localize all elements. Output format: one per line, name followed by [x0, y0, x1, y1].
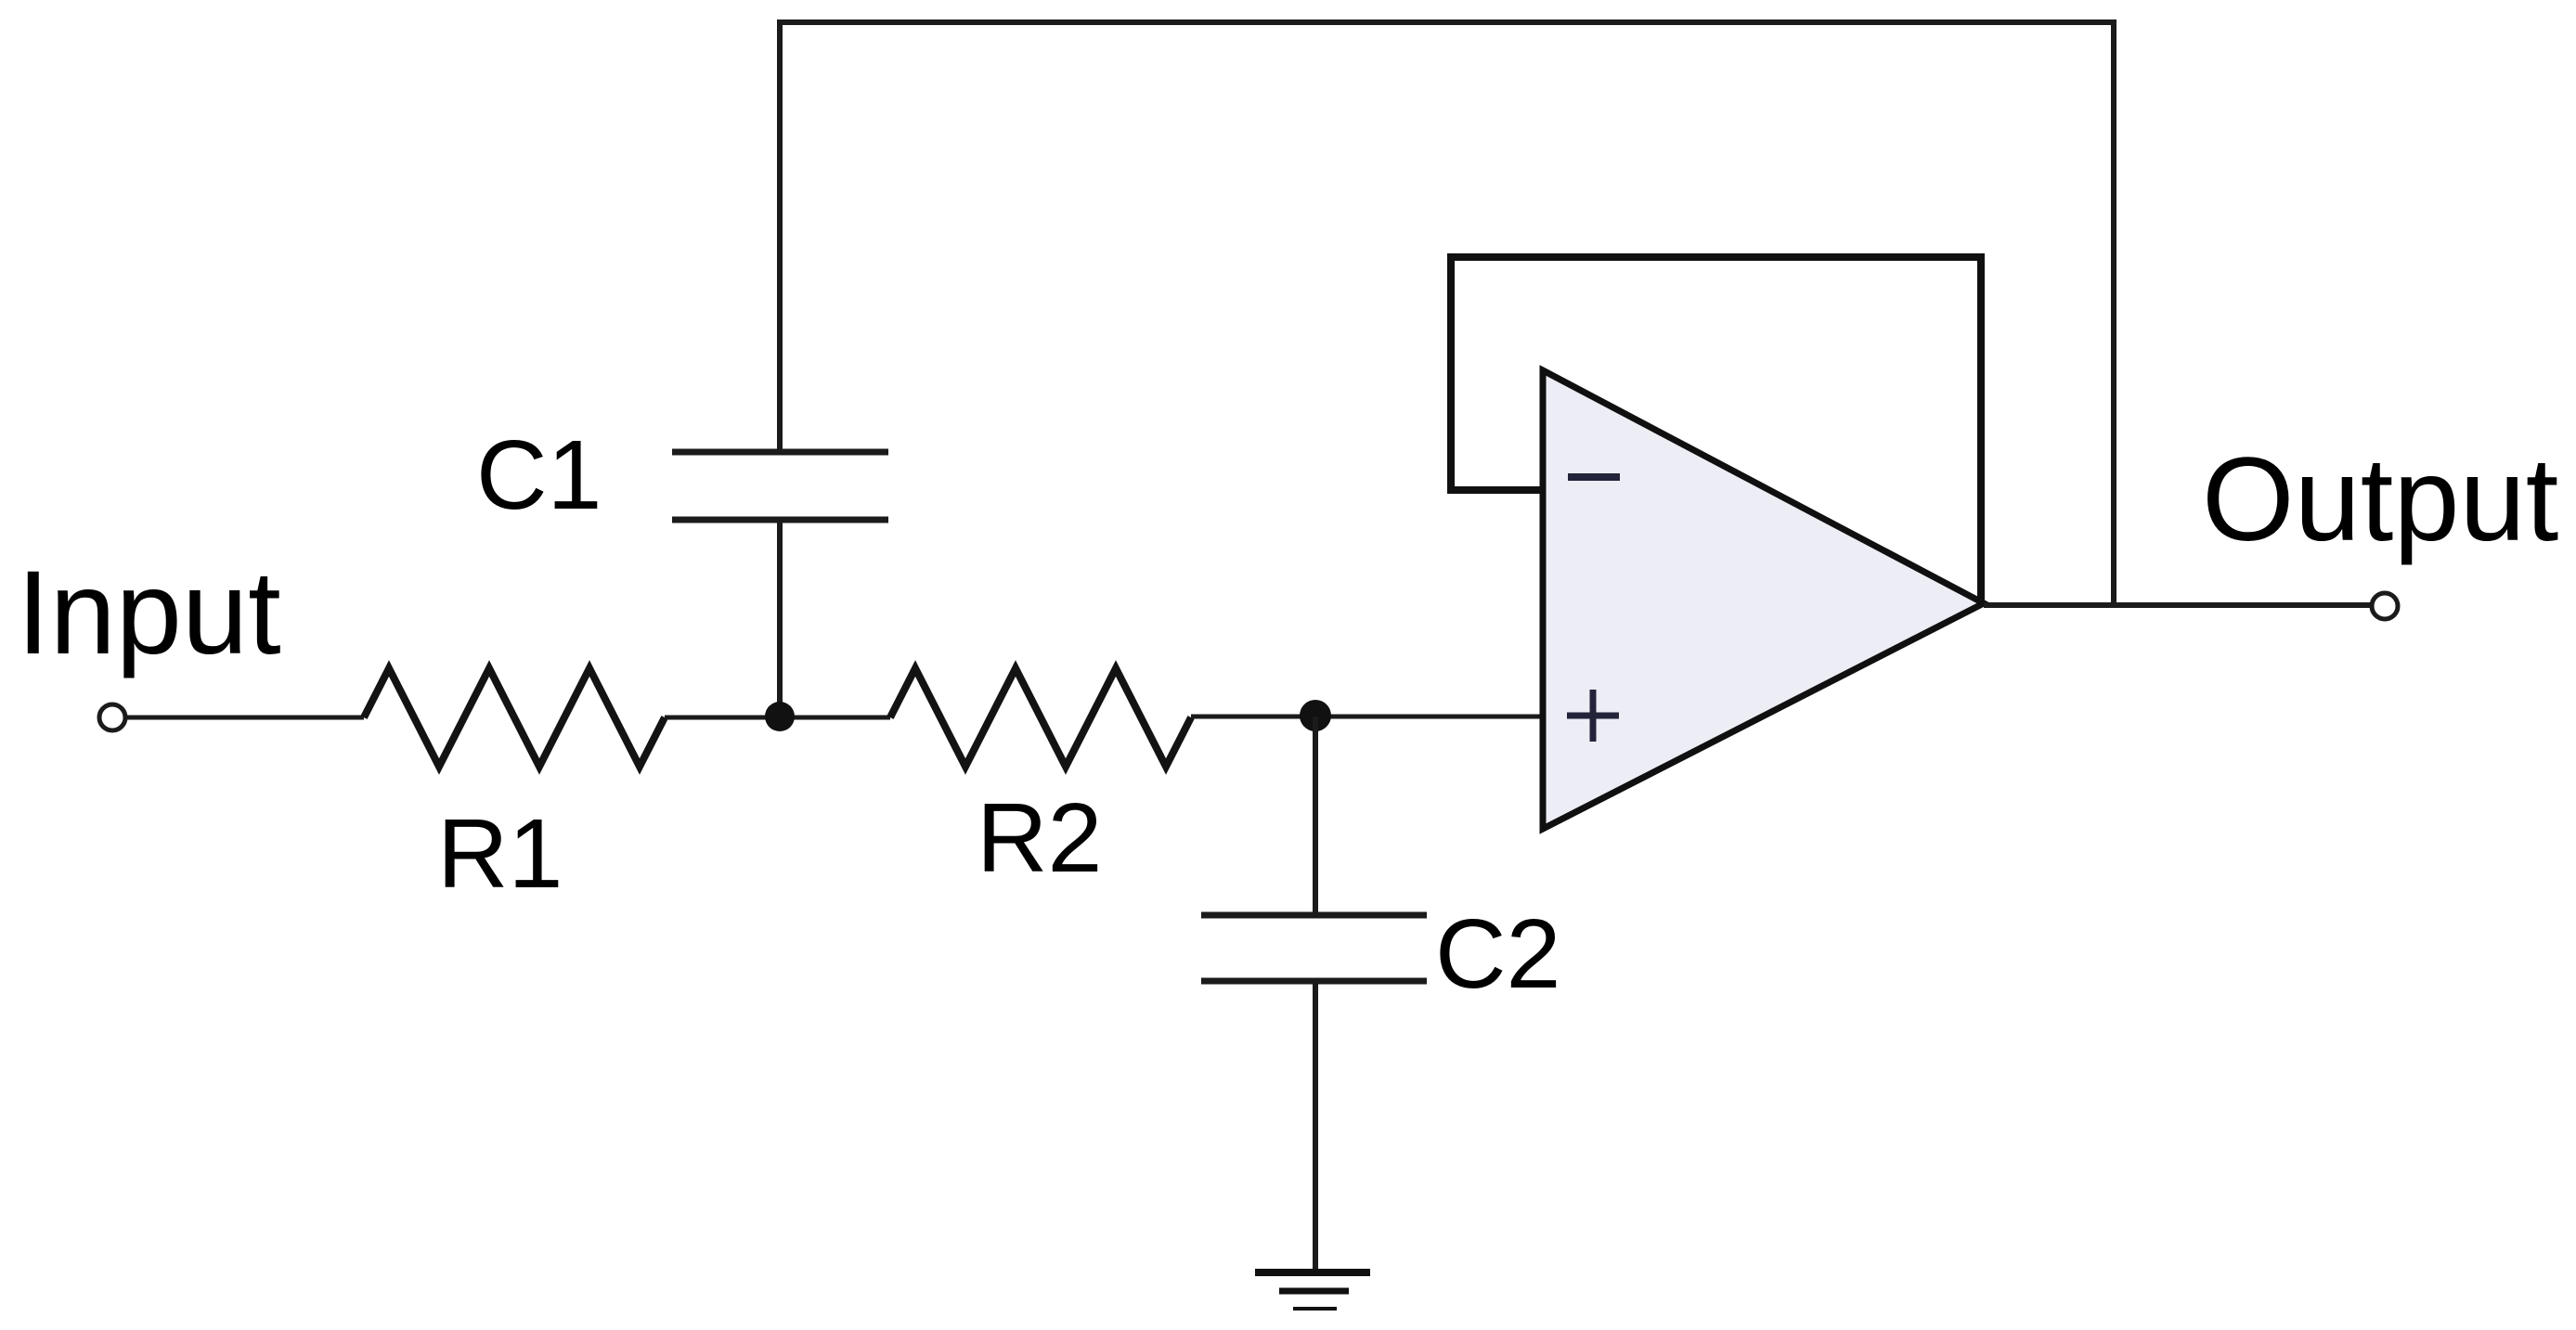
- svg-text:C2: C2: [1435, 899, 1561, 1009]
- node A junction dot: [765, 702, 795, 731]
- wire: C2 to ground: [1313, 981, 1318, 1272]
- wire: top feedback from C1 top to output column: [780, 22, 2114, 605]
- svg-text:Input: Input: [17, 547, 281, 679]
- capacitor C1: [672, 452, 888, 520]
- wire: R2 to op-amp + input through node B: [1191, 715, 1543, 719]
- resistor R1: [364, 668, 665, 767]
- wire: node B down to C2: [1313, 717, 1318, 915]
- input terminal: [99, 704, 125, 730]
- wire: R1 to R2 through node A: [665, 716, 890, 720]
- output terminal: [2372, 593, 2398, 619]
- op-amp U1: [1543, 370, 1984, 829]
- svg-text:C1: C1: [476, 420, 602, 530]
- capacitor C2: [1201, 915, 1427, 981]
- svg-text:R1: R1: [437, 799, 563, 909]
- resistor R2: [890, 668, 1191, 767]
- svg-text:Output: Output: [2202, 433, 2558, 566]
- wire: feedback loop around op-amp: [1451, 257, 1981, 604]
- op-amp inverting input mark: [1568, 473, 1620, 481]
- ground: [1255, 1272, 1370, 1309]
- wire: op-amp output to terminal: [1984, 602, 2371, 608]
- node B junction dot: [1300, 700, 1331, 731]
- wire: C1 bottom to node A: [777, 520, 783, 717]
- wire: input to R1: [125, 716, 364, 720]
- svg-text:R2: R2: [977, 783, 1103, 893]
- op-amp non-inverting input mark: [1567, 690, 1619, 742]
